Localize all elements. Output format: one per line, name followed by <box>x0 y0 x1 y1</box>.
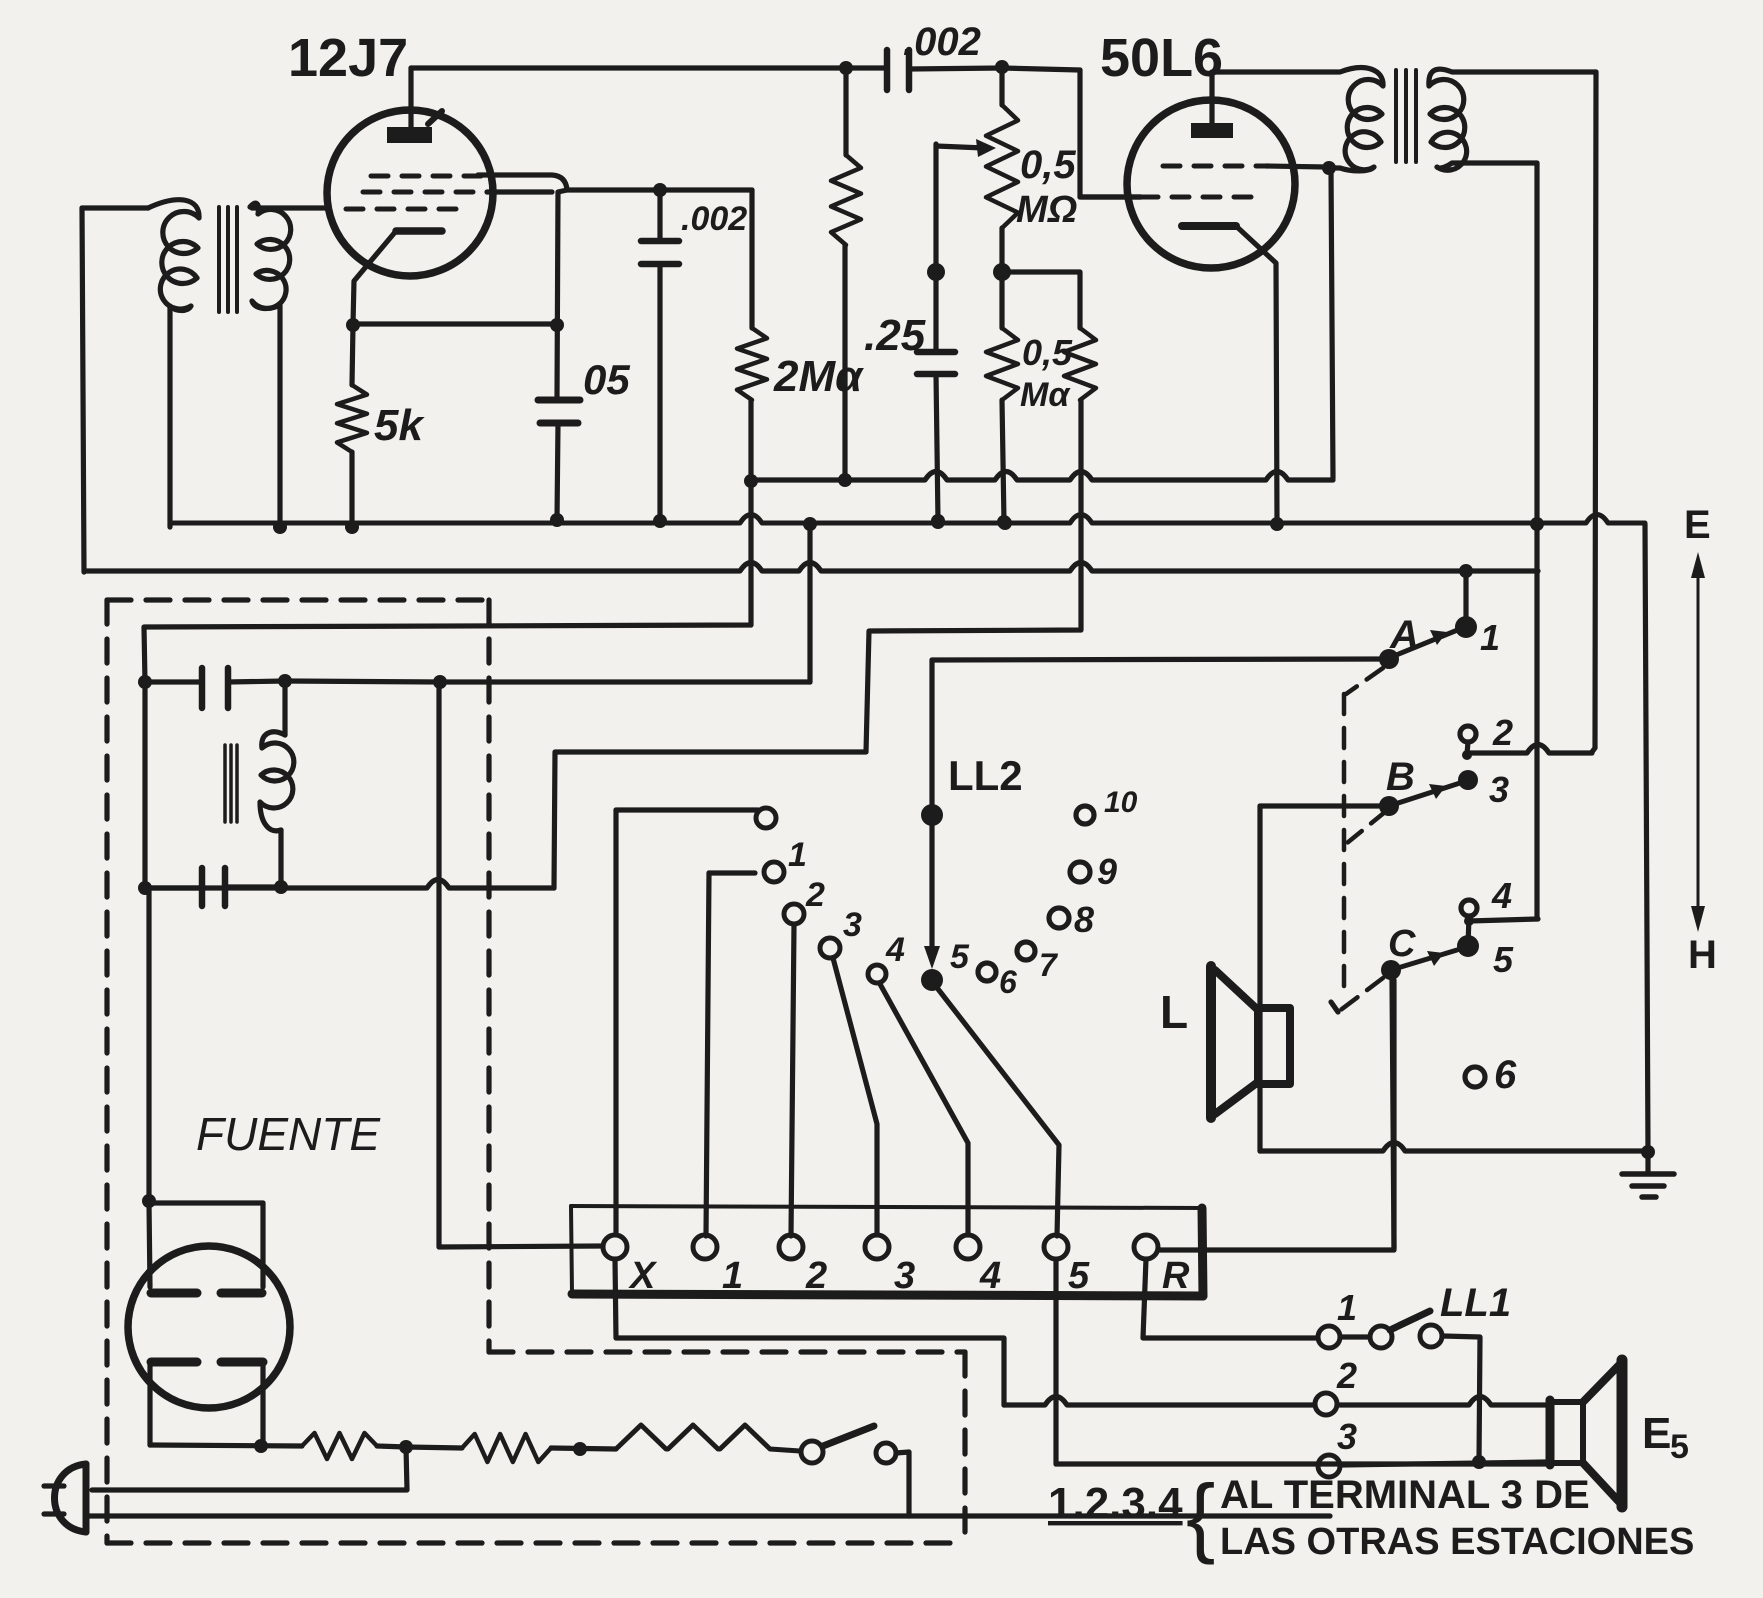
svg-text:1: 1 <box>1480 617 1500 658</box>
svg-text:05: 05 <box>583 356 630 403</box>
svg-text:3: 3 <box>1337 1416 1357 1457</box>
svg-text:.002: .002 <box>903 20 981 64</box>
svg-text:1: 1 <box>722 1255 743 1297</box>
svg-text:5: 5 <box>1068 1255 1090 1297</box>
svg-text:X: X <box>628 1255 658 1297</box>
svg-text:7: 7 <box>1039 947 1059 983</box>
svg-text:.25: .25 <box>864 311 926 360</box>
svg-text:1.2.3.4: 1.2.3.4 <box>1048 1479 1183 1528</box>
svg-text:0,5: 0,5 <box>1022 332 1073 373</box>
svg-text:6: 6 <box>999 964 1017 1000</box>
svg-text:3: 3 <box>843 906 862 944</box>
svg-text:5k: 5k <box>374 401 425 450</box>
svg-text:8: 8 <box>1074 899 1094 940</box>
svg-text:50L6: 50L6 <box>1100 28 1223 88</box>
svg-text:12J7: 12J7 <box>288 28 408 88</box>
svg-text:A: A <box>1389 613 1419 657</box>
svg-text:C: C <box>1388 923 1416 965</box>
svg-text:LL1: LL1 <box>1440 1281 1511 1325</box>
svg-text:E: E <box>1684 503 1711 547</box>
svg-text:B: B <box>1386 755 1415 799</box>
svg-text:3: 3 <box>894 1255 915 1297</box>
svg-text:4: 4 <box>979 1255 1001 1297</box>
svg-text:R: R <box>1162 1255 1190 1297</box>
svg-text:1: 1 <box>1337 1287 1357 1328</box>
svg-text:Mα: Mα <box>1020 376 1071 414</box>
svg-text:AL TERMINAL 3 DE: AL TERMINAL 3 DE <box>1220 1473 1590 1517</box>
svg-text:MΩ: MΩ <box>1016 189 1077 231</box>
svg-text:5: 5 <box>1670 1428 1689 1466</box>
svg-text:LAS OTRAS ESTACIONES: LAS OTRAS ESTACIONES <box>1220 1521 1694 1563</box>
svg-text:2: 2 <box>805 1255 827 1297</box>
svg-text:FUENTE: FUENTE <box>196 1108 381 1160</box>
svg-text:2: 2 <box>805 876 825 914</box>
svg-text:3: 3 <box>1489 769 1509 810</box>
svg-text:2: 2 <box>1336 1355 1357 1396</box>
svg-text:{: { <box>1186 1466 1215 1565</box>
svg-text:H: H <box>1688 933 1717 977</box>
svg-text:E: E <box>1642 1409 1671 1458</box>
svg-text:5: 5 <box>1493 939 1514 980</box>
svg-text:LL2: LL2 <box>948 752 1023 799</box>
svg-text:9: 9 <box>1097 851 1117 892</box>
svg-text:1: 1 <box>788 836 807 874</box>
svg-text:L: L <box>1160 986 1188 1038</box>
svg-text:4: 4 <box>885 931 905 969</box>
svg-text:5: 5 <box>950 938 970 976</box>
svg-text:.002: .002 <box>681 200 747 238</box>
svg-text:6: 6 <box>1494 1053 1517 1097</box>
svg-text:2: 2 <box>1492 712 1513 753</box>
svg-text:2Mα: 2Mα <box>773 352 864 401</box>
svg-text:0,5: 0,5 <box>1020 143 1076 187</box>
svg-text:4: 4 <box>1491 875 1512 916</box>
svg-text:10: 10 <box>1104 786 1138 819</box>
